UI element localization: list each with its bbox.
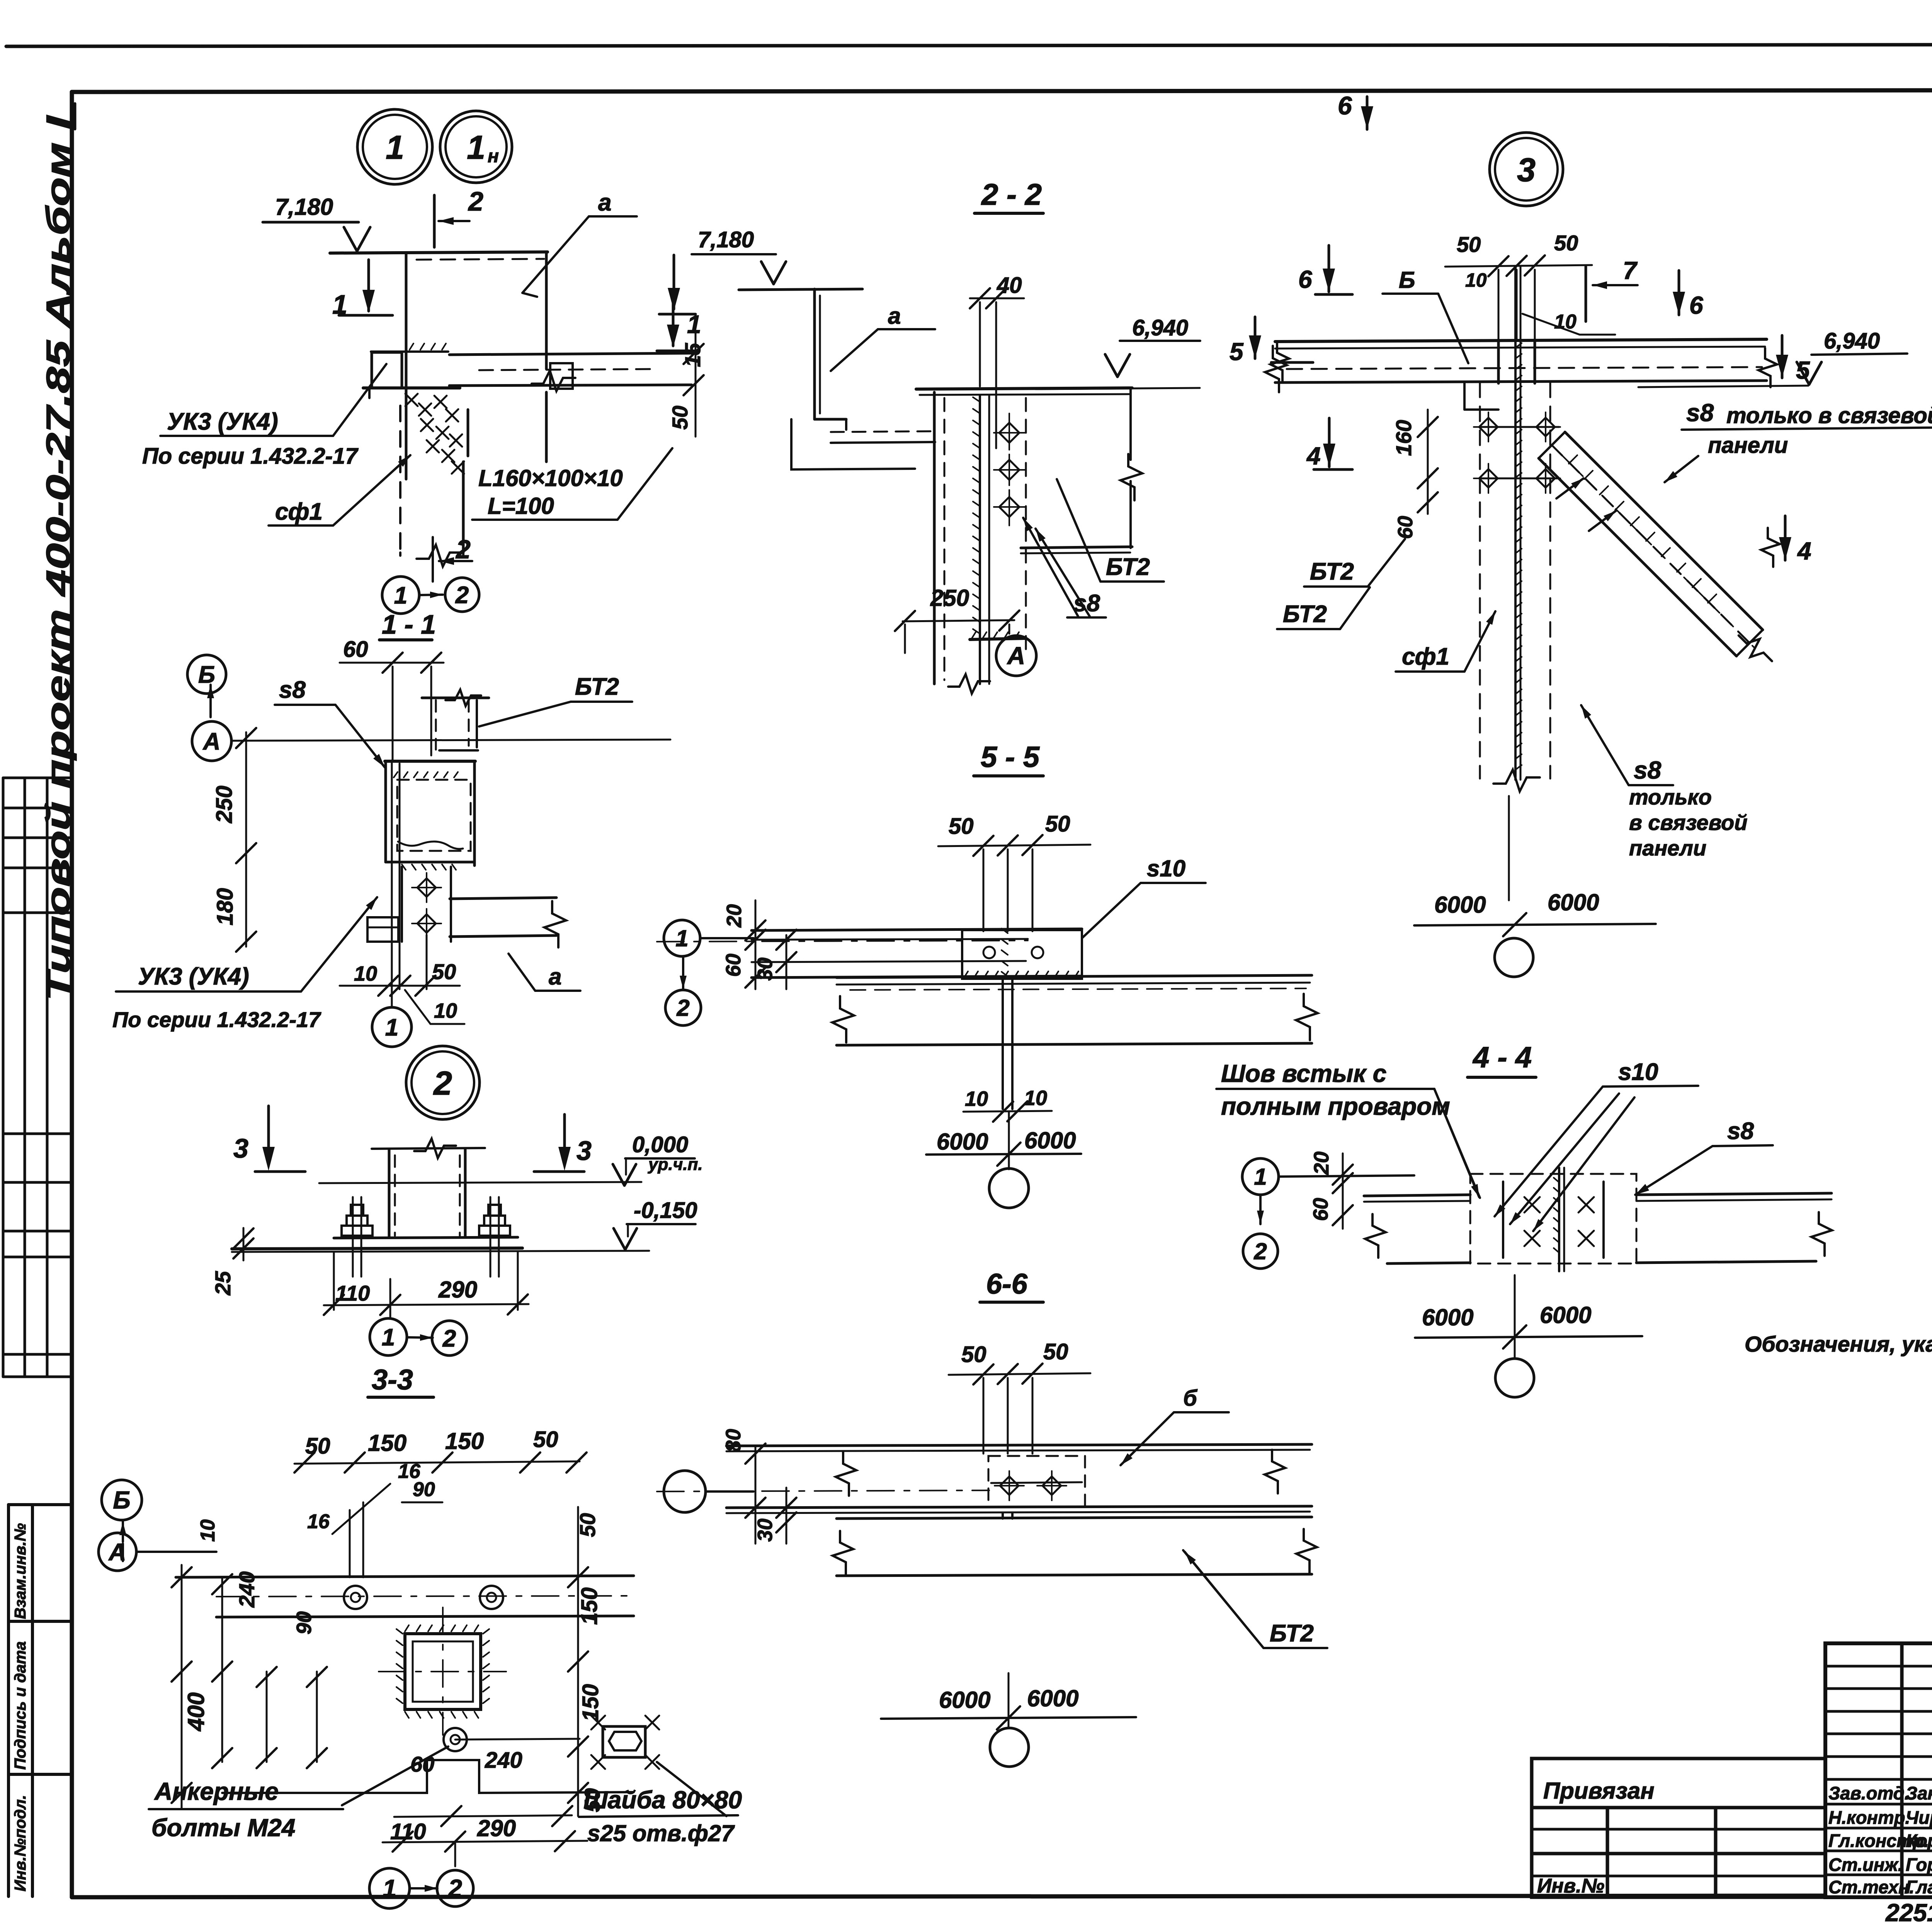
svg-text:290: 290	[477, 1815, 516, 1841]
svg-text:160: 160	[1391, 420, 1416, 456]
svg-text:7: 7	[1623, 257, 1638, 284]
svg-text:50: 50	[575, 1513, 600, 1537]
svg-text:50: 50	[668, 406, 692, 430]
svg-text:0,000: 0,000	[632, 1132, 688, 1157]
svg-text:Чиркова: Чиркова	[1906, 1807, 1932, 1828]
svg-text:60: 60	[722, 954, 745, 977]
svg-text:БТ2: БТ2	[1283, 601, 1327, 628]
svg-text:Б: Б	[1399, 267, 1415, 293]
svg-text:50: 50	[305, 1434, 330, 1459]
svg-text:2: 2	[468, 186, 483, 216]
svg-text:а: а	[888, 303, 901, 329]
svg-text:н: н	[488, 146, 499, 167]
svg-text:50: 50	[949, 814, 974, 839]
svg-text:1: 1	[383, 1874, 396, 1902]
svg-text:1: 1	[467, 129, 485, 166]
svg-text:Н.контр.: Н.контр.	[1828, 1807, 1910, 1828]
svg-text:1 - 1: 1 - 1	[382, 609, 436, 639]
svg-text:ур.ч.п.: ур.ч.п.	[648, 1155, 703, 1174]
svg-text:30: 30	[753, 1519, 777, 1542]
svg-text:s8: s8	[279, 677, 306, 703]
svg-text:2: 2	[1253, 1238, 1267, 1264]
svg-text:БТ2: БТ2	[575, 673, 619, 700]
svg-text:2: 2	[676, 995, 689, 1021]
svg-text:По серии 1.432.2-17: По серии 1.432.2-17	[142, 444, 359, 469]
svg-text:6: 6	[1689, 291, 1703, 319]
svg-text:1: 1	[332, 289, 347, 320]
svg-text:2: 2	[433, 1065, 452, 1102]
svg-text:5 - 5: 5 - 5	[981, 741, 1040, 774]
svg-text:6000: 6000	[1027, 1685, 1078, 1711]
svg-text:50: 50	[1554, 231, 1578, 255]
svg-text:250: 250	[930, 585, 969, 611]
svg-text:15: 15	[680, 343, 705, 367]
svg-text:А: А	[1007, 642, 1025, 670]
svg-text:50: 50	[961, 1342, 986, 1367]
svg-text:6000: 6000	[1540, 1302, 1591, 1328]
svg-text:6000: 6000	[1024, 1128, 1076, 1153]
svg-text:Инв.№подл.: Инв.№подл.	[11, 1795, 29, 1891]
svg-text:4: 4	[1306, 442, 1321, 470]
svg-text:80: 80	[722, 1429, 745, 1452]
svg-text:60: 60	[1394, 516, 1417, 539]
svg-text:s25 отв.ф27: s25 отв.ф27	[587, 1820, 735, 1846]
svg-text:7,180: 7,180	[698, 227, 754, 252]
svg-text:Привязан: Привязан	[1543, 1778, 1654, 1804]
svg-text:25: 25	[211, 1271, 235, 1296]
svg-text:6,940: 6,940	[1132, 315, 1188, 340]
svg-text:БТ2: БТ2	[1106, 554, 1150, 580]
svg-text:90: 90	[413, 1478, 435, 1501]
svg-text:3-3: 3-3	[372, 1364, 413, 1396]
svg-text:1: 1	[1254, 1164, 1267, 1190]
svg-text:панели: панели	[1629, 836, 1706, 860]
svg-text:Б: Б	[198, 662, 215, 688]
svg-text:1: 1	[394, 582, 407, 609]
svg-text:10: 10	[1465, 269, 1487, 291]
svg-text:только в связевой: только в связевой	[1726, 403, 1932, 428]
svg-text:а: а	[598, 189, 611, 216]
svg-text:Обозначения, указанные в скоб: Обозначения, указанные в скобках, даны д…	[1745, 1332, 1932, 1357]
svg-text:22510-01: 22510-01	[1885, 1899, 1932, 1927]
svg-text:панели: панели	[1708, 433, 1788, 458]
svg-text:А: А	[108, 1539, 126, 1566]
svg-text:УК3 (УК4): УК3 (УК4)	[138, 963, 249, 990]
svg-text:5: 5	[1230, 338, 1244, 366]
svg-text:50: 50	[1045, 811, 1070, 837]
svg-text:150: 150	[577, 1587, 602, 1625]
svg-text:16: 16	[307, 1510, 330, 1533]
svg-text:1: 1	[687, 310, 701, 338]
svg-text:10: 10	[1024, 1087, 1047, 1110]
svg-text:10: 10	[434, 999, 457, 1022]
svg-text:240: 240	[485, 1748, 522, 1773]
svg-text:сф1: сф1	[1402, 643, 1449, 670]
svg-text:б: б	[1183, 1386, 1198, 1411]
svg-text:1: 1	[675, 925, 688, 951]
svg-text:6-6: 6-6	[986, 1268, 1028, 1300]
svg-text:6: 6	[1338, 91, 1352, 120]
svg-text:1: 1	[382, 1324, 395, 1351]
svg-text:Горлава: Горлава	[1906, 1854, 1932, 1875]
svg-text:3: 3	[1517, 151, 1536, 189]
svg-text:7,180: 7,180	[275, 194, 333, 220]
svg-text:150: 150	[445, 1428, 484, 1454]
svg-text:20: 20	[723, 904, 746, 928]
svg-text:Ст.техн.: Ст.техн.	[1828, 1877, 1914, 1897]
svg-text:400: 400	[183, 1692, 209, 1731]
svg-text:110: 110	[390, 1819, 426, 1844]
svg-text:Закутный: Закутный	[1906, 1783, 1932, 1803]
svg-text:10: 10	[965, 1087, 988, 1111]
svg-text:-0,150: -0,150	[634, 1198, 697, 1223]
svg-text:6: 6	[1298, 265, 1312, 293]
svg-text:2: 2	[442, 1325, 456, 1352]
svg-text:60: 60	[1309, 1198, 1332, 1221]
svg-text:150: 150	[368, 1430, 406, 1456]
svg-text:2: 2	[448, 1874, 462, 1902]
svg-text:s8: s8	[1634, 756, 1662, 784]
svg-text:6000: 6000	[937, 1129, 988, 1155]
svg-text:s10: s10	[1147, 855, 1185, 881]
svg-text:полным проваром: полным проваром	[1221, 1092, 1450, 1120]
svg-text:s8: s8	[1727, 1118, 1754, 1145]
svg-text:болты М24: болты М24	[151, 1814, 295, 1842]
svg-text:3: 3	[577, 1136, 592, 1166]
svg-text:20: 20	[1310, 1151, 1333, 1175]
svg-text:50: 50	[432, 959, 456, 984]
svg-text:Взам.инв.№: Взам.инв.№	[11, 1523, 29, 1619]
svg-text:s8: s8	[1686, 399, 1714, 427]
svg-text:240: 240	[235, 1571, 259, 1608]
svg-text:Инв.№: Инв.№	[1537, 1875, 1604, 1897]
svg-text:6,940: 6,940	[1824, 328, 1880, 354]
svg-text:только: только	[1629, 785, 1712, 809]
svg-text:4 - 4: 4 - 4	[1472, 1041, 1532, 1074]
svg-text:2 - 2: 2 - 2	[981, 177, 1042, 211]
svg-text:90: 90	[293, 1611, 316, 1634]
svg-text:10: 10	[354, 962, 377, 985]
svg-text:БТ2: БТ2	[1270, 1620, 1314, 1647]
svg-text:290: 290	[438, 1277, 477, 1303]
svg-text:10: 10	[197, 1519, 219, 1542]
svg-text:50: 50	[1457, 232, 1481, 257]
svg-text:Коренцвит: Коренцвит	[1906, 1830, 1932, 1851]
svg-text:Глазова: Глазова	[1906, 1877, 1932, 1897]
svg-text:50: 50	[533, 1427, 558, 1452]
svg-text:3: 3	[233, 1133, 248, 1163]
svg-text:Б: Б	[113, 1486, 130, 1514]
svg-text:s10: s10	[1618, 1059, 1658, 1085]
svg-text:Зав.отд.: Зав.отд.	[1828, 1783, 1910, 1803]
svg-text:По серии 1.432.2-17: По серии 1.432.2-17	[112, 1007, 321, 1032]
svg-text:Ст.инж.: Ст.инж.	[1828, 1854, 1903, 1875]
svg-text:1: 1	[386, 129, 404, 166]
svg-text:150: 150	[578, 1684, 603, 1721]
svg-text:110: 110	[335, 1281, 370, 1305]
svg-text:Анкерные: Анкерные	[154, 1777, 279, 1805]
svg-text:250: 250	[212, 786, 237, 823]
svg-text:6000: 6000	[1548, 889, 1599, 915]
svg-text:а: а	[549, 964, 561, 990]
svg-text:180: 180	[213, 888, 238, 925]
svg-text:6000: 6000	[939, 1687, 990, 1713]
svg-text:L160×100×10: L160×100×10	[478, 465, 623, 491]
svg-text:2: 2	[455, 535, 471, 564]
svg-text:4: 4	[1797, 537, 1811, 565]
svg-text:УК3 (УК4): УК3 (УК4)	[167, 408, 278, 435]
svg-text:БТ2: БТ2	[1310, 558, 1354, 585]
svg-text:2: 2	[455, 582, 469, 609]
svg-text:сф1: сф1	[275, 498, 323, 525]
svg-text:6000: 6000	[1434, 892, 1486, 918]
svg-text:Подпись и дата: Подпись и дата	[11, 1641, 29, 1770]
svg-text:А: А	[202, 728, 221, 755]
svg-text:50: 50	[1043, 1339, 1068, 1364]
svg-text:6000: 6000	[1422, 1304, 1473, 1330]
svg-text:1: 1	[385, 1014, 398, 1041]
svg-text:в связевой: в связевой	[1629, 810, 1747, 835]
svg-text:60: 60	[343, 637, 368, 662]
svg-text:L=100: L=100	[488, 493, 554, 519]
svg-text:Шов встык с: Шов встык с	[1221, 1060, 1386, 1087]
